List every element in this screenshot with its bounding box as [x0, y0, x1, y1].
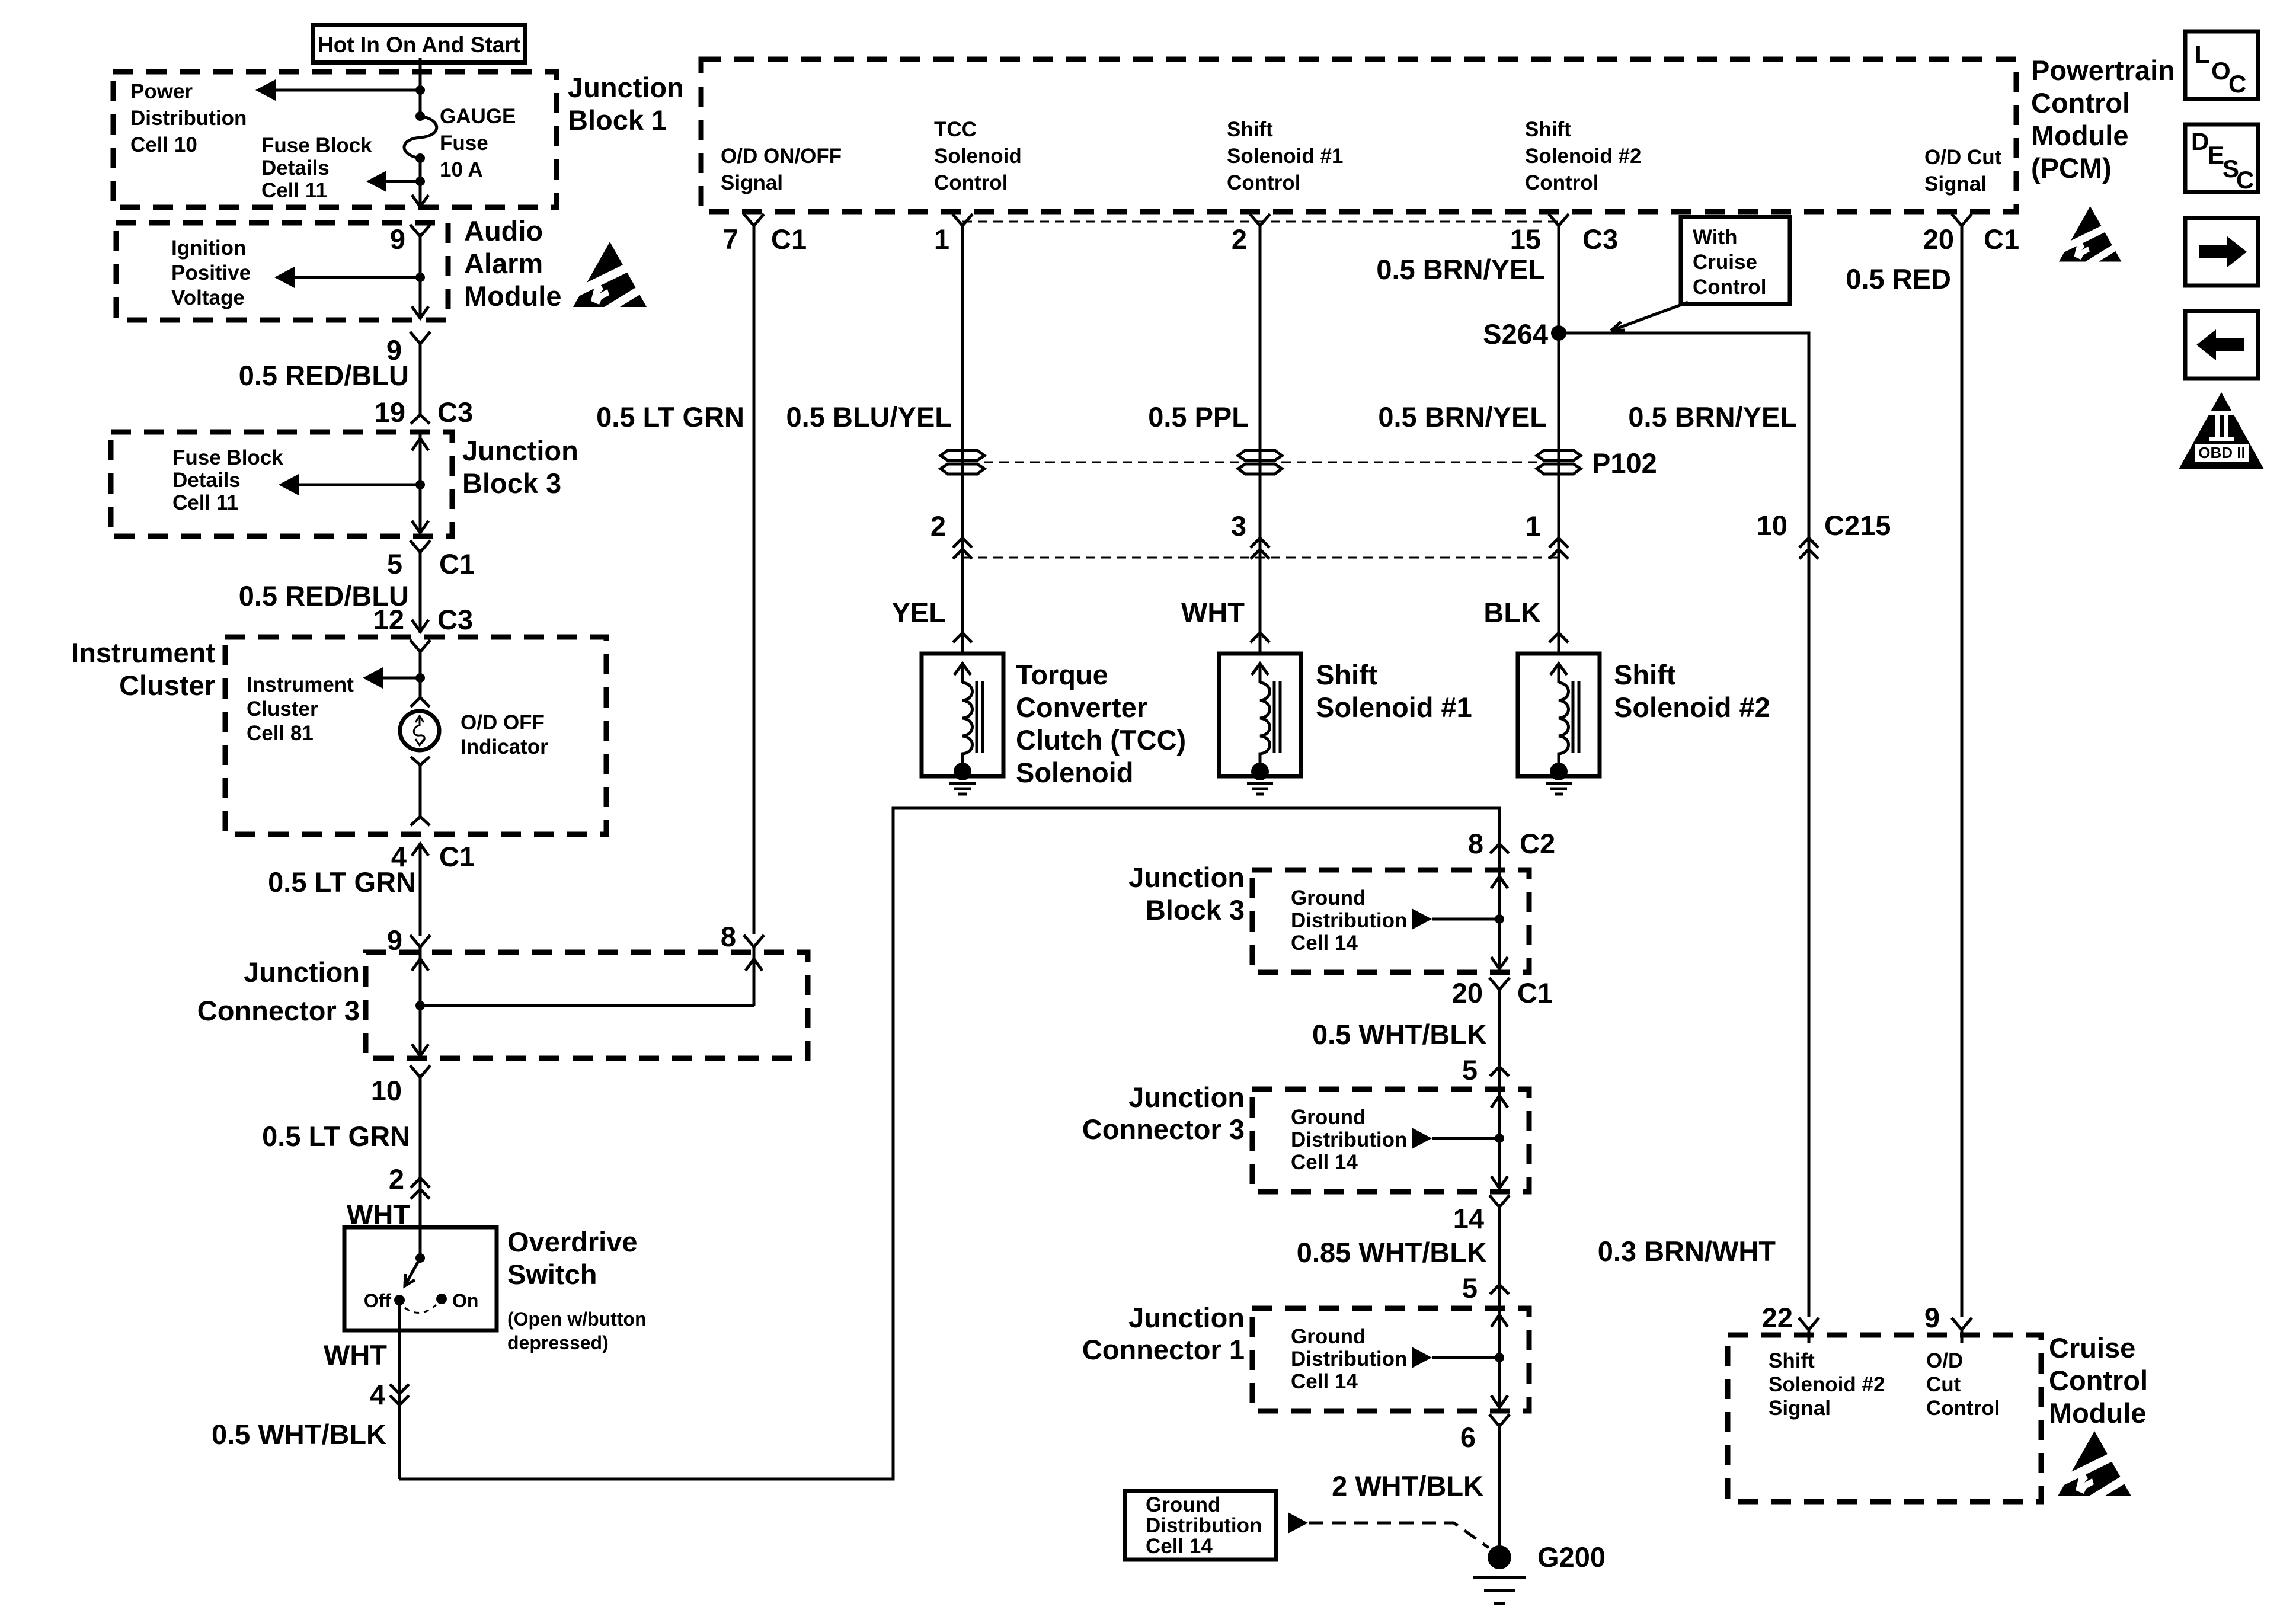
module box: Junction Connector 1: [1252, 1308, 1529, 1411]
svg-text:0.5 LT GRN: 0.5 LT GRN: [268, 866, 416, 898]
pin 3: transmission connector SS1: [1231, 510, 1269, 559]
svg-text:6: 6: [1460, 1422, 1476, 1453]
label: Powertrain Control Module (PCM): [2031, 55, 2175, 184]
svg-text:P102: P102: [1592, 447, 1657, 479]
pin 20 C1: PCM O/D cut signal: [1923, 214, 2019, 255]
svg-text:TCC: TCC: [934, 118, 977, 141]
label: Fuse Block Details Cell 11: [261, 134, 372, 202]
svg-text:9: 9: [390, 223, 405, 255]
grommet P102 shift solenoid 1: [1238, 450, 1282, 474]
svg-text:5: 5: [387, 548, 402, 580]
svg-text:On: On: [452, 1290, 478, 1311]
node: junction connector 1 tap: [1495, 1353, 1504, 1362]
svg-text:C1: C1: [439, 841, 475, 872]
wire: audio alarm to junction block 3: [419, 341, 422, 415]
pin 7 C1: PCM: [723, 214, 807, 255]
label: GAUGE Fuse 10 A: [440, 105, 516, 181]
pin 2: transmission connector TCC: [930, 510, 972, 559]
switch: overdrive switch contacts: [394, 1253, 447, 1313]
pin 5: junction connector 1 entry: [1462, 1272, 1509, 1304]
svg-text:Powertrain: Powertrain: [2031, 55, 2175, 86]
svg-text:O/D: O/D: [1926, 1349, 1963, 1372]
svg-text:Ground: Ground: [1291, 1325, 1366, 1348]
svg-text:Hot In On And Start: Hot In On And Start: [318, 33, 520, 57]
svg-text:Cell 10: Cell 10: [130, 133, 197, 156]
node: fuse block details tap jb3: [415, 480, 425, 489]
svg-text:5: 5: [1462, 1272, 1478, 1304]
wire: O/D cut signal vertical: [1961, 233, 1964, 1317]
node: power distribution tap: [415, 85, 425, 95]
svg-text:Solenoid #2: Solenoid #2: [1614, 692, 1770, 723]
label: Torque Converter Clutch (TCC) Solenoid: [1016, 659, 1186, 788]
pin 5 C1: junction block 3 bottom: [387, 540, 475, 580]
pin 15 C3: PCM shift solenoid 2 control: [1510, 214, 1618, 255]
wire: dashed pointer to G200: [1309, 1523, 1489, 1548]
wire: arrow to Instrument Cluster Cell 81: [363, 667, 420, 689]
pin 9: audio alarm top: [390, 223, 430, 255]
svg-text:12: 12: [373, 604, 404, 635]
connector chevron shift solenoid 2: [1549, 633, 1568, 642]
svg-text:Clutch (TCC): Clutch (TCC): [1016, 724, 1186, 756]
icon: LOC box: [2185, 31, 2258, 99]
wire: hot box to fuse: [419, 58, 422, 116]
svg-text:20: 20: [1452, 977, 1483, 1009]
wire: TCC solenoid control vertical: [961, 233, 964, 654]
svg-text:Fuse Block: Fuse Block: [261, 134, 372, 157]
connector chevron shift solenoid 1: [1251, 633, 1269, 642]
svg-text:Connector 3: Connector 3: [1082, 1113, 1245, 1145]
label: Shift Solenoid #2 Control: [1525, 118, 1641, 194]
wire: jb3 middle to junction connector 3 middle: [1498, 987, 1501, 1089]
svg-text:Junction: Junction: [462, 435, 578, 466]
label: Junction Connector 3: [197, 956, 360, 1026]
ground: TCC solenoid: [949, 783, 976, 794]
svg-text:Voltage: Voltage: [171, 286, 245, 309]
label: Ground Distribution Cell 14 jc1: [1291, 1325, 1407, 1393]
solenoid: Shift Solenoid #2: [1518, 654, 1600, 780]
svg-text:0.5 RED: 0.5 RED: [1846, 263, 1951, 295]
module box: Instrument Cluster: [225, 637, 606, 834]
arrow: exit junction connector 3 middle down: [1491, 1176, 1508, 1188]
svg-text:O/D Cut: O/D Cut: [1924, 146, 2002, 169]
svg-text:9: 9: [1924, 1302, 1940, 1333]
svg-text:Control: Control: [1525, 171, 1598, 194]
pin 8 C2: junction block 3 middle entry: [1468, 828, 1555, 859]
wire: dashed transmission connector link: [962, 557, 1559, 559]
svg-text:20: 20: [1923, 223, 1954, 255]
svg-text:15: 15: [1510, 223, 1541, 255]
node: fuse block details tap: [415, 177, 425, 186]
wire: through audio alarm module: [419, 233, 422, 318]
wire: junction connector 3 bus horizontal: [420, 1004, 754, 1007]
svg-text:Positive: Positive: [171, 261, 251, 284]
arrow: exit audio alarm module down: [412, 306, 428, 318]
pin 4: overdrive switch bottom connector: [370, 1379, 409, 1410]
module box: Junction Block 3 left: [111, 432, 452, 536]
svg-text:0.5 BLU/YEL: 0.5 BLU/YEL: [786, 401, 952, 433]
icon: ESD symbol PCM: [2059, 206, 2121, 268]
svg-text:Module: Module: [2049, 1397, 2146, 1429]
arrow: into junction connector 3 middle up: [1491, 1096, 1508, 1108]
component box: Overdrive Switch: [344, 1227, 497, 1330]
svg-text:WHT: WHT: [324, 1339, 387, 1371]
wire: overdrive switch ground run: [399, 808, 1499, 1479]
icon: right arrow box: [2185, 218, 2258, 286]
svg-text:Cell 11: Cell 11: [261, 179, 327, 202]
wire: junction connector 1 to G200: [1498, 1423, 1501, 1557]
wire: shift solenoid 1 control vertical: [1259, 233, 1262, 654]
arrow: into junction connector 1 up: [1491, 1315, 1508, 1327]
wire: fuse to Junction Block 1 exit: [419, 159, 422, 206]
box: With Cruise Control: [1681, 217, 1790, 304]
grommet P102 TCC: [941, 450, 984, 474]
svg-text:Control: Control: [1926, 1397, 2000, 1420]
svg-text:1: 1: [934, 223, 949, 255]
svg-text:Solenoid #2: Solenoid #2: [1525, 145, 1641, 168]
svg-text:8: 8: [1468, 828, 1483, 859]
svg-text:10 A: 10 A: [440, 158, 483, 181]
svg-text:O/D ON/OFF: O/D ON/OFF: [721, 145, 842, 168]
svg-text:Signal: Signal: [721, 171, 783, 194]
label: O/D OFF Indicator: [461, 711, 548, 758]
svg-text:Cell 14: Cell 14: [1291, 1370, 1358, 1393]
wire: junction connector 3 left leg: [419, 952, 422, 1056]
svg-text:Solenoid: Solenoid: [934, 145, 1022, 168]
wire: overdrive switch exit: [398, 1300, 401, 1479]
svg-text:Shift: Shift: [1769, 1349, 1815, 1372]
svg-text:7: 7: [723, 223, 738, 255]
svg-text:depressed): depressed): [507, 1332, 609, 1353]
svg-text:Shift: Shift: [1316, 659, 1378, 690]
wire: shift solenoid 2 control vertical: [1558, 233, 1560, 654]
grommet P102 shift solenoid 2: [1537, 450, 1581, 474]
pin 6: junction connector 1 bottom: [1460, 1414, 1510, 1453]
connector chevron TCC solenoid: [953, 633, 972, 642]
svg-text:2: 2: [1232, 223, 1247, 255]
svg-text:Instrument: Instrument: [247, 673, 354, 696]
label: Ground Distribution Cell 14 jb3m: [1291, 886, 1407, 955]
wire: dashed connector link under PCM pins: [962, 221, 1559, 223]
label: O/D Cut Control: [1926, 1349, 2000, 1420]
svg-text:Control: Control: [1693, 276, 1766, 299]
svg-text:L: L: [2195, 40, 2210, 68]
svg-text:0.5 BRN/YEL: 0.5 BRN/YEL: [1628, 401, 1797, 433]
svg-text:YEL: YEL: [892, 597, 946, 628]
svg-text:Cell 14: Cell 14: [1146, 1535, 1213, 1558]
svg-text:Cell 14: Cell 14: [1291, 1151, 1358, 1174]
wire: through junction block 3 middle: [1498, 870, 1501, 970]
svg-text:Junction: Junction: [1128, 1302, 1245, 1333]
label: Shift Solenoid #1 Control: [1227, 118, 1343, 194]
svg-text:Shift: Shift: [1614, 659, 1676, 690]
svg-text:0.5 RED/BLU: 0.5 RED/BLU: [239, 360, 409, 391]
svg-text:2 WHT/BLK: 2 WHT/BLK: [1332, 1470, 1483, 1502]
pin 20 C1: junction block 3 middle bottom: [1452, 977, 1553, 1009]
svg-text:Solenoid #2: Solenoid #2: [1769, 1373, 1885, 1396]
label: Shift Solenoid #2: [1614, 659, 1770, 723]
svg-text:0.5 LT GRN: 0.5 LT GRN: [596, 401, 744, 433]
svg-text:Block 3: Block 3: [462, 468, 561, 499]
svg-text:1: 1: [1526, 510, 1541, 542]
arrow: with cruise control callout: [1611, 302, 1688, 331]
svg-text:8: 8: [721, 921, 736, 952]
label: Ignition Positive Voltage: [171, 236, 251, 309]
arrow: exit junction block 3 down: [412, 521, 428, 533]
pin 1: PCM TCC solenoid control: [934, 214, 973, 255]
module box: Powertrain Control Module (PCM): [701, 59, 2016, 212]
label: Instrument Cluster Cell 81: [247, 673, 354, 745]
svg-text:Module: Module: [464, 280, 561, 312]
svg-text:Switch: Switch: [507, 1259, 597, 1290]
node S264: [1483, 318, 1566, 350]
svg-text:Instrument: Instrument: [71, 637, 215, 668]
svg-text:Solenoid #1: Solenoid #1: [1316, 692, 1472, 723]
svg-text:G200: G200: [1537, 1541, 1606, 1573]
svg-text:19: 19: [375, 396, 405, 428]
svg-text:2: 2: [389, 1163, 404, 1195]
svg-text:Control: Control: [1227, 171, 1300, 194]
svg-text:WHT: WHT: [1181, 597, 1245, 628]
svg-text:Control: Control: [2031, 87, 2130, 119]
wire: arrow to Fuse Block Details: [366, 171, 420, 192]
pin 19 C3: junction block 3 entry: [375, 396, 473, 428]
svg-text:Distribution: Distribution: [1146, 1514, 1262, 1537]
icon: OBD II triangle: [2179, 392, 2264, 469]
svg-text:(Open w/button: (Open w/button: [507, 1308, 647, 1330]
lamp: O/D OFF Indicator: [400, 711, 439, 750]
svg-text:0.5 PPL: 0.5 PPL: [1148, 401, 1249, 433]
solenoid: Shift Solenoid #1: [1219, 654, 1301, 780]
arrow: exit Junction Block 1 down: [412, 195, 428, 207]
box: Hot In On And Start: [313, 25, 525, 63]
svg-text:10: 10: [1757, 510, 1787, 541]
label: Fuse Block Details Cell 11 jb3: [172, 446, 283, 514]
svg-text:4: 4: [370, 1379, 385, 1410]
wire: P102 dashed link: [984, 462, 1537, 463]
node: ignition positive voltage tap: [415, 273, 425, 282]
wire: junction block 3 to instrument cluster: [419, 549, 422, 633]
pin 4 C1: instrument cluster exit: [391, 841, 475, 872]
pin 8: junction connector 3 right entry: [721, 921, 764, 960]
wire: O/D ON/OFF signal vertical: [753, 233, 756, 934]
svg-text:C215: C215: [1824, 510, 1891, 541]
svg-text:C1: C1: [439, 548, 475, 580]
svg-text:Converter: Converter: [1016, 692, 1147, 723]
svg-text:Torque: Torque: [1016, 659, 1108, 690]
label: Ground Distribution Cell 14 jc3m: [1291, 1106, 1407, 1174]
icon: DESC box: [2185, 124, 2258, 194]
icon: ESD symbol audio alarm: [573, 242, 647, 315]
icon: left arrow box: [2185, 311, 2258, 379]
svg-text:14: 14: [1453, 1203, 1484, 1234]
svg-text:Signal: Signal: [1924, 172, 1987, 196]
svg-text:5: 5: [1462, 1054, 1478, 1086]
svg-text:BLK: BLK: [1483, 597, 1541, 628]
module box: Junction Connector 3 left: [366, 952, 808, 1058]
svg-text:0.5 BRN/YEL: 0.5 BRN/YEL: [1378, 401, 1547, 433]
svg-text:Distribution: Distribution: [1291, 1347, 1407, 1371]
svg-text:C2: C2: [1520, 828, 1555, 859]
svg-text:Block 1: Block 1: [568, 104, 667, 136]
svg-text:Power: Power: [130, 80, 193, 103]
wire: through junction connector 3 middle: [1498, 1089, 1501, 1189]
arrow: exit junction connector 1 down: [1491, 1395, 1508, 1407]
svg-text:(PCM): (PCM): [2031, 152, 2112, 184]
label: Overdrive Switch: [507, 1226, 647, 1353]
pin 1: transmission connector SS2: [1526, 510, 1568, 559]
svg-text:Cell 81: Cell 81: [247, 722, 314, 745]
svg-text:Connector 1: Connector 1: [1082, 1334, 1245, 1365]
svg-text:Overdrive: Overdrive: [507, 1226, 637, 1257]
svg-text:Solenoid #1: Solenoid #1: [1227, 145, 1343, 168]
svg-text:C3: C3: [1582, 223, 1618, 255]
svg-text:Junction: Junction: [1128, 1081, 1245, 1113]
wire: junction connector 3 right leg: [746, 952, 762, 1006]
svg-text:Alarm: Alarm: [464, 248, 543, 279]
node: instrument cluster tap: [415, 673, 425, 683]
module box: Audio Alarm Module: [116, 223, 448, 320]
svg-text:Junction: Junction: [244, 956, 360, 988]
connector X at instrument cluster exit: [411, 817, 430, 825]
svg-text:Solenoid: Solenoid: [1016, 757, 1133, 788]
svg-text:Block 3: Block 3: [1146, 894, 1245, 926]
svg-text:O/D OFF: O/D OFF: [461, 711, 545, 734]
svg-text:Shift: Shift: [1525, 118, 1571, 141]
label: Junction Block 1: [568, 72, 684, 136]
label: Junction Block 3: [462, 435, 578, 499]
connector chevron above bulb: [411, 697, 430, 707]
node: junction connector 3 bus: [415, 1001, 425, 1010]
module box: Junction Connector 3 middle: [1252, 1089, 1529, 1192]
arrow: exit junction block 3 middle down: [1491, 957, 1508, 969]
svg-text:Cell 14: Cell 14: [1291, 932, 1358, 955]
svg-text:Junction: Junction: [1128, 862, 1245, 893]
module box: Cruise Control Module: [1728, 1335, 2041, 1502]
svg-text:Fuse: Fuse: [440, 132, 488, 155]
svg-text:Cluster: Cluster: [119, 670, 215, 701]
svg-text:Details: Details: [172, 469, 241, 492]
svg-text:22: 22: [1762, 1302, 1793, 1333]
svg-text:Off: Off: [364, 1290, 392, 1311]
svg-text:C3: C3: [437, 396, 473, 428]
svg-text:C: C: [2236, 166, 2254, 194]
svg-text:Fuse Block: Fuse Block: [172, 446, 283, 469]
svg-text:Cruise: Cruise: [2049, 1332, 2135, 1363]
svg-text:S264: S264: [1483, 318, 1548, 350]
fuse: GAUGE Fuse 10 A: [404, 111, 437, 163]
pin 9: junction connector 3 entry: [387, 924, 430, 960]
pin 2: PCM shift solenoid 1 control: [1232, 214, 1270, 255]
svg-text:2: 2: [930, 510, 946, 542]
label: Power Distribution Cell 10: [130, 80, 247, 156]
svg-text:Audio: Audio: [464, 215, 543, 247]
svg-text:Junction: Junction: [568, 72, 684, 103]
pin 2: overdrive switch connector: [389, 1163, 430, 1199]
svg-text:Control: Control: [934, 171, 1008, 194]
pin 9: cruise control O/D cut control: [1924, 1302, 1972, 1343]
label: Junction Connector 1: [1082, 1302, 1245, 1365]
pin 10: junction connector 3 bottom: [371, 1065, 430, 1106]
svg-text:Shift: Shift: [1227, 118, 1273, 141]
svg-text:D: D: [2191, 127, 2209, 155]
label: Shift Solenoid #2 Signal: [1769, 1349, 1885, 1420]
svg-text:Connector 3: Connector 3: [197, 995, 360, 1026]
svg-text:0.5 WHT/BLK: 0.5 WHT/BLK: [1312, 1019, 1487, 1050]
box: Ground Distribution Cell 14 callout: [1125, 1491, 1276, 1560]
wire: S264 branch to cruise control: [1559, 333, 1809, 1317]
svg-text:Distribution: Distribution: [1291, 909, 1407, 932]
arrow: into junction block 3 up: [412, 438, 428, 450]
node: junction block 3 middle tap: [1495, 914, 1504, 924]
svg-text:Cruise: Cruise: [1693, 251, 1757, 274]
svg-text:C1: C1: [1984, 223, 2019, 255]
svg-text:Cell 11: Cell 11: [172, 491, 238, 514]
wire: instrument cluster to junction connector 3: [419, 844, 422, 936]
label: Instrument Cluster: [71, 637, 215, 701]
label: Audio Alarm Module: [464, 215, 561, 312]
wire: arrow to Power Distribution: [255, 79, 420, 101]
wire: jc3 middle to junction connector 1: [1498, 1204, 1501, 1308]
svg-text:Details: Details: [261, 156, 330, 180]
icon: ESD symbol cruise control: [2058, 1431, 2131, 1505]
arrow: ground distribution callout pointer: [1288, 1512, 1308, 1534]
label: TCC Solenoid Control: [934, 118, 1022, 194]
svg-text:With: With: [1693, 226, 1738, 249]
svg-text:Signal: Signal: [1769, 1397, 1831, 1420]
svg-text:0.5 LT GRN: 0.5 LT GRN: [262, 1121, 410, 1152]
connector Y below bulb: [411, 757, 430, 817]
module box: Junction Block 3 middle: [1252, 870, 1529, 972]
wire: ground distribution pointer jc3m: [1412, 1128, 1499, 1149]
wire: arrow to Fuse Block Details jb3: [279, 474, 420, 495]
pin 9: audio alarm bottom: [386, 332, 430, 366]
ground G200: [1473, 1545, 1526, 1603]
svg-text:0.3 BRN/WHT: 0.3 BRN/WHT: [1598, 1235, 1776, 1267]
svg-text:Ground: Ground: [1291, 886, 1366, 910]
svg-text:Distribution: Distribution: [1291, 1128, 1407, 1151]
svg-text:Ground: Ground: [1146, 1493, 1220, 1516]
pin 12 C3: instrument cluster entry: [373, 604, 473, 635]
ground: shift solenoid 1: [1247, 783, 1273, 794]
wire: junction connector 3 to overdrive switch: [419, 1074, 422, 1258]
pin 5: junction connector 3 middle entry: [1462, 1054, 1509, 1086]
label: Shift Solenoid #1: [1316, 659, 1472, 723]
svg-text:Module: Module: [2031, 120, 2128, 151]
svg-text:C1: C1: [771, 223, 807, 255]
svg-text:GAUGE: GAUGE: [440, 105, 516, 128]
svg-text:C: C: [2228, 70, 2246, 98]
svg-text:Distribution: Distribution: [130, 107, 247, 130]
arrow: into junction block 3 middle up: [1491, 876, 1508, 888]
node: junction connector 3 middle tap: [1495, 1134, 1504, 1143]
svg-text:O: O: [2211, 57, 2231, 85]
svg-text:E: E: [2208, 141, 2224, 169]
svg-text:3: 3: [1231, 510, 1246, 542]
label: O/D ON/OFF Signal: [721, 145, 842, 194]
svg-text:0.5 WHT/BLK: 0.5 WHT/BLK: [212, 1419, 386, 1450]
svg-text:Indicator: Indicator: [461, 735, 548, 758]
label: Cruise Control Module: [2049, 1332, 2148, 1429]
svg-text:Ignition: Ignition: [171, 236, 246, 260]
solenoid: Torque Converter Clutch (TCC) Solenoid: [922, 654, 1003, 780]
svg-text:C3: C3: [437, 604, 473, 635]
wire: inside instrument cluster: [419, 649, 422, 697]
svg-text:Cluster: Cluster: [247, 697, 318, 721]
svg-text:0.85 WHT/BLK: 0.85 WHT/BLK: [1297, 1237, 1487, 1268]
label: Junction Block 3 middle: [1128, 862, 1245, 926]
wire: ground distribution pointer jb3m: [1412, 908, 1499, 930]
svg-text:Cut: Cut: [1926, 1373, 1961, 1396]
